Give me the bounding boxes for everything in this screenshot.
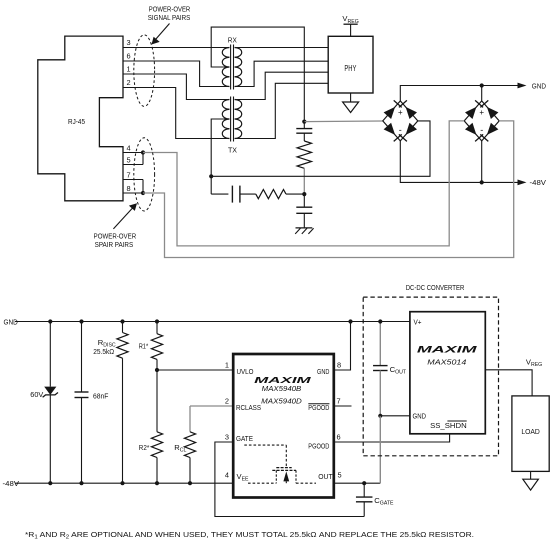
wire bridge D1 bottom to -48V output: [400, 141, 518, 183]
node B junction: [302, 192, 306, 196]
svg-text:25.5kΩ: 25.5kΩ: [93, 347, 114, 356]
svg-text:4: 4: [126, 144, 130, 153]
svg-text:MAX5940D: MAX5940D: [261, 396, 302, 405]
wire pin 7 to pin 8 tie: [142, 180, 144, 194]
svg-text:LOAD: LOAD: [521, 427, 540, 436]
svg-text:4: 4: [225, 470, 229, 479]
wire UVLO node to R2: [156, 370, 158, 432]
wire node A to bridge D1 left: [304, 120, 383, 123]
svg-text:MAXIM: MAXIM: [417, 345, 477, 355]
svg-text:CGATE: CGATE: [374, 496, 394, 507]
svg-text:SS_SHDN: SS_SHDN: [430, 421, 467, 430]
svg-text:OUT: OUT: [318, 472, 333, 481]
svg-text:SIGNAL PAIRS: SIGNAL PAIRS: [148, 13, 191, 22]
wire R1 to UVLO node: [156, 359, 158, 370]
svg-text:68nF: 68nF: [93, 391, 109, 400]
svg-text:POWER-OVER: POWER-OVER: [94, 231, 137, 240]
capacitor node A series: [296, 128, 312, 130]
svg-text:1: 1: [225, 360, 229, 369]
wire R2 to -48V rail: [156, 458, 158, 484]
wire MAX5014 GND pin: [380, 415, 410, 417]
wire spare pair 4-5 to bridge D2 left: [143, 121, 464, 246]
MOSFET Q1 drain leg: [295, 470, 297, 483]
RJ-45 connector body: [38, 36, 123, 201]
svg-text:+: +: [479, 108, 484, 117]
wire TX secondary bottom to PHY: [235, 83, 329, 138]
wire CGATE to bottom loop: [363, 502, 365, 517]
svg-text:GND: GND: [413, 411, 427, 420]
wire RCLASS to RCL: [189, 406, 191, 432]
diode D1 bottom-right: [406, 123, 417, 135]
junction R1 GND rail: [155, 319, 159, 323]
svg-text:8: 8: [126, 184, 130, 193]
svg-text:POWER-OVER: POWER-OVER: [149, 5, 191, 14]
MOSFET Q1 source leg: [275, 470, 277, 483]
wire bridge D1 top to GND output: [400, 86, 518, 101]
diode bridge D1: [383, 101, 418, 141]
resistor series horizontal: [256, 190, 286, 199]
transformer RX core bar 2: [233, 45, 235, 90]
wire series capacitor to resistor: [240, 193, 256, 195]
wire RX center tap to node A: [211, 27, 304, 122]
svg-text:PGOOD: PGOOD: [308, 442, 329, 451]
LOAD box: [512, 396, 549, 472]
transformer RX core bar 1: [230, 45, 232, 90]
capacitor series horizontal: [231, 186, 233, 203]
wire pin 4 stub: [123, 152, 143, 154]
svg-text:6: 6: [337, 432, 341, 441]
junction R2 -48V rail: [155, 481, 159, 485]
IC U2 MAX5014 box: [410, 312, 485, 434]
svg-text:V+: V+: [414, 318, 422, 327]
svg-text:5: 5: [126, 156, 130, 165]
DC-DC converter dashed box: [363, 297, 498, 456]
svg-text:6: 6: [126, 52, 130, 61]
node A junction: [302, 120, 306, 124]
wire pin 8 stub: [123, 192, 143, 194]
ground symbol below LOAD: [523, 479, 539, 490]
svg-text:3: 3: [225, 432, 229, 441]
wire UVLO node to pin 1: [157, 369, 233, 371]
svg-text:7: 7: [337, 396, 341, 405]
junction RCL -48V rail: [188, 481, 192, 485]
junction zener GND rail: [48, 319, 52, 323]
wire pin 5 OUT: [334, 482, 381, 484]
arrow to signal pairs ellipse: [156, 24, 170, 40]
resistor R2: [151, 432, 162, 458]
svg-text:R1*: R1*: [139, 341, 149, 350]
wire pin 6 to RX primary bottom: [123, 61, 230, 87]
svg-text:60V: 60V: [30, 390, 44, 399]
svg-text:3: 3: [126, 38, 130, 47]
svg-text:GND: GND: [532, 81, 547, 90]
transformer RX secondary winding: [235, 48, 242, 87]
MOSFET Q1 gate bar: [276, 467, 291, 469]
svg-text:GND: GND: [4, 318, 19, 327]
transformer TX core bar 1: [230, 97, 232, 142]
junction TX tap rail node: [209, 174, 213, 178]
svg-text:-: -: [399, 125, 402, 135]
resistor RDISC 25.5k: [122, 322, 124, 333]
svg-text:-48V: -48V: [530, 178, 547, 187]
junction 68nF -48V rail: [79, 481, 83, 485]
junction 68nF GND rail: [79, 319, 83, 323]
svg-text:-48V: -48V: [3, 479, 20, 488]
wire LOAD ground stem: [530, 471, 532, 479]
svg-text:SPAIR PAIRS: SPAIR PAIRS: [95, 240, 134, 249]
MOSFET Q1 body arrow: [283, 471, 289, 481]
wire COUT node to OUT wire: [379, 416, 381, 483]
wire PHY ground stem: [350, 93, 352, 102]
MOSFET Q1 arrow stem: [285, 481, 287, 483]
svg-text:-: -: [480, 125, 483, 135]
wire node B to capacitor to ground: [303, 194, 305, 207]
diode D2 bottom-left: [465, 123, 476, 135]
resistor RCL: [184, 432, 195, 458]
arrow to spare pairs ellipse: [113, 208, 133, 229]
wire bridge D2 bottom to -48V line: [481, 141, 483, 183]
diode D1 top-right: [406, 107, 417, 119]
wire capacitor to chassis ground: [303, 213, 305, 228]
resistor node A series: [297, 141, 311, 168]
wire RX secondary top to PHY: [235, 47, 329, 49]
junction RDISC GND rail: [120, 319, 124, 323]
capacitor node B to chassis ground: [296, 206, 312, 208]
signal pairs ellipse: [134, 35, 155, 107]
svg-text:PHY: PHY: [344, 64, 357, 73]
transformer TX secondary winding: [235, 100, 242, 139]
junction pins 4-5: [141, 150, 145, 154]
svg-text:VREG: VREG: [526, 357, 542, 368]
junction OUT CGATE: [362, 481, 366, 485]
junction -48V line bridge D2 bottom: [480, 180, 484, 184]
junction COUT GND rail: [378, 319, 382, 323]
wire pin 6 PGOOD to SS_SHDN: [334, 434, 450, 442]
wire OUT node to CGATE: [363, 483, 365, 497]
wire pin 4 to pin 5 tie: [142, 153, 144, 165]
svg-text:1: 1: [126, 65, 130, 74]
junction zener -48V rail: [48, 481, 52, 485]
svg-text:MAX5940B: MAX5940B: [262, 384, 302, 393]
transformer RX primary winding: [222, 48, 229, 87]
svg-text:GATE: GATE: [236, 434, 253, 443]
svg-text:RCLASS: RCLASS: [236, 403, 261, 412]
spare pairs ellipse: [134, 138, 155, 211]
wire pin 3 to RX primary top: [123, 47, 230, 49]
GND output arrow: [518, 83, 527, 89]
svg-text:MAX5014: MAX5014: [427, 358, 466, 367]
svg-text:UVLO: UVLO: [237, 367, 254, 376]
diode D2 top-left: [465, 107, 476, 119]
diode bridge D2: [464, 101, 499, 141]
wire GND line to bridge D2 top: [481, 86, 483, 101]
svg-text:RJ-45: RJ-45: [68, 117, 85, 126]
wire pin 1 to TX primary top: [123, 74, 230, 100]
svg-text:COUT: COUT: [390, 365, 407, 376]
junction pin 8 GND rail: [348, 319, 352, 323]
svg-text:VREG: VREG: [342, 14, 358, 25]
diode D2 bottom-right: [487, 123, 499, 135]
ground symbol below PHY: [343, 102, 359, 113]
svg-text:VEE: VEE: [237, 472, 250, 483]
svg-text:RCL: RCL: [174, 443, 186, 454]
wire pin 5 stub: [123, 164, 143, 166]
wire TX center tap to rail node: [211, 119, 229, 176]
PHY box: [328, 36, 373, 93]
wire -48V rail: [15, 482, 233, 484]
svg-text:*R1 AND R2 ARE OPTIONAL AND WH: *R1 AND R2 ARE OPTIONAL AND WHEN USED, T…: [25, 530, 474, 540]
wire series resistor to node B: [286, 193, 304, 195]
wire capacitor to resistor: [303, 133, 305, 141]
wire GATE pin to CGATE bottom: [215, 442, 364, 517]
MOSFET Q1 dashed source to VEE: [248, 482, 276, 484]
IC U1 MAX5940 box: [233, 354, 334, 498]
svg-text:+: +: [398, 108, 403, 117]
junction COUT MAX5014 GND: [378, 414, 382, 418]
svg-text:DC-DC CONVERTER: DC-DC CONVERTER: [406, 283, 465, 292]
wire MAX5014 output to LOAD: [485, 370, 532, 396]
capacitor COUT: [373, 365, 388, 367]
wire GND rail to COUT: [379, 322, 381, 366]
zener diode 60V: [49, 322, 51, 387]
wire TX secondary top to PHY: [235, 72, 329, 99]
wire spare pair 7-8 to bridge D2 right: [143, 121, 514, 258]
svg-text:7: 7: [126, 171, 130, 180]
wire COUT to MAX5014 GND: [379, 371, 381, 416]
svg-text:PGOOD: PGOOD: [308, 403, 329, 412]
wire pin 7 stub: [334, 405, 352, 407]
junction GND line bridge D2 top: [480, 83, 484, 87]
MOSFET Q1 channel bar: [272, 469, 296, 471]
-48V output arrow: [518, 180, 527, 186]
wire RCL to -48V rail: [189, 458, 191, 484]
svg-text:RX: RX: [228, 36, 237, 45]
junction R1 R2 UVLO node: [155, 368, 159, 372]
diode D1 bottom-left: [384, 123, 396, 135]
internal MOSFET Q1 dashed gate route: [244, 444, 286, 446]
svg-text:5: 5: [338, 470, 342, 479]
svg-text:R2*: R2*: [139, 443, 150, 452]
diode D1 top-left: [384, 107, 396, 119]
wire to series capacitor: [211, 193, 228, 195]
svg-text:2: 2: [225, 396, 229, 405]
svg-text:TX: TX: [228, 146, 237, 155]
wire RX secondary bottom to PHY: [235, 61, 329, 86]
wire pin 8 to GND rail: [334, 322, 351, 371]
wire pin 2 to TX primary bottom: [123, 88, 230, 139]
wire rail to bridge D1 right corner: [211, 121, 430, 176]
capacitor CGATE: [356, 496, 373, 498]
wire pin 2 RCLASS: [190, 405, 233, 407]
MOSFET Q1 dashed drain to OUT: [296, 482, 316, 484]
transformer TX primary winding: [222, 100, 229, 139]
resistor R1: [156, 322, 158, 334]
transformer TX core bar 2: [233, 97, 235, 142]
junction RDISC -48V rail: [120, 481, 124, 485]
wire GND rail: [15, 321, 410, 323]
junction pins 7-8: [141, 191, 145, 195]
svg-text:GND: GND: [317, 367, 330, 376]
capacitor 68nF: [81, 322, 83, 393]
wire resistor to node B (crosses rail): [303, 168, 305, 194]
diode D2 top-right: [487, 107, 499, 119]
svg-text:2: 2: [126, 78, 130, 87]
wire node A to capacitor: [303, 122, 305, 129]
chassis ground symbol: [296, 227, 313, 229]
svg-text:8: 8: [337, 360, 341, 369]
wire tap node down to series cap: [210, 176, 212, 194]
wire pin 7 stub: [123, 179, 143, 181]
